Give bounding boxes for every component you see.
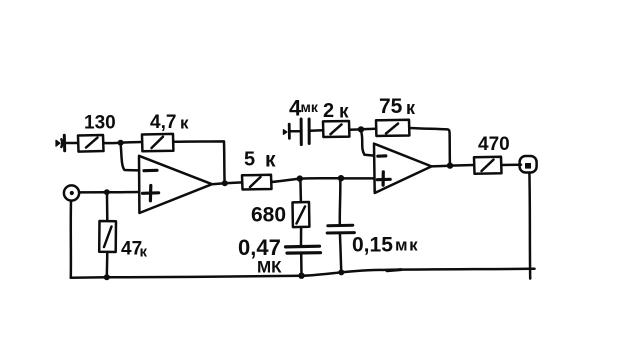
svg-text:к: к: [339, 102, 349, 123]
svg-text:75: 75: [379, 95, 403, 118]
svg-text:МК: МК: [257, 258, 282, 277]
svg-text:к: к: [265, 149, 276, 172]
svg-text:130: 130: [84, 113, 116, 134]
svg-text:5: 5: [244, 149, 255, 171]
svg-text:к: к: [406, 98, 416, 118]
svg-text:0,15: 0,15: [352, 234, 393, 257]
svg-text:0,47: 0,47: [238, 235, 281, 260]
svg-text:мк: мк: [395, 236, 419, 255]
svg-text:680: 680: [251, 204, 286, 227]
svg-text:470: 470: [478, 134, 510, 155]
svg-text:к: к: [180, 114, 189, 133]
svg-text:мк: мк: [301, 99, 319, 115]
svg-text:2: 2: [323, 100, 334, 122]
svg-text:к: к: [140, 244, 148, 261]
svg-text:4,7: 4,7: [150, 112, 176, 133]
